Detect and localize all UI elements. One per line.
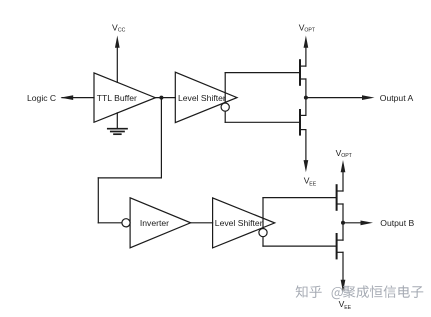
inverter <box>130 198 191 248</box>
wire: right to inverter input bubble <box>98 222 122 224</box>
inverter label <box>140 218 169 228</box>
VEE label A <box>304 175 317 187</box>
svg-text:CC: CC <box>118 27 126 33</box>
TTL buffer label <box>97 93 137 103</box>
level shifter A <box>175 72 237 122</box>
svg-text:OPT: OPT <box>341 153 352 159</box>
node A output junction <box>304 96 308 100</box>
svg-text:EE: EE <box>309 181 316 187</box>
level shifter B <box>213 198 275 248</box>
VEE supply arrow B <box>341 252 346 292</box>
node B output junction <box>341 221 345 225</box>
wire: down to inverter row <box>97 178 99 223</box>
Output A label <box>380 93 414 103</box>
output B arrow <box>343 221 373 226</box>
Vcc label <box>112 22 126 33</box>
wire: level shifter A gate-drive box left vertical <box>224 73 226 123</box>
wire: buffer output to level shifter A <box>155 97 175 99</box>
wire: Q1 source to node A to Q2 drain <box>305 79 307 115</box>
VEE supply arrow A <box>304 130 309 173</box>
input arrow (points left) <box>60 95 94 100</box>
wire: bottom gate wire to Q2 <box>225 121 300 123</box>
transistor Q4 (lower MOSFET, output B) <box>337 234 343 258</box>
wire: inverter to level shifter B <box>191 222 213 224</box>
wire: node A down <box>160 98 162 178</box>
wire: horizontal to left <box>98 177 161 179</box>
VEE label B <box>339 299 352 311</box>
VOPT label A <box>299 22 316 33</box>
svg-text:EE: EE <box>344 305 351 311</box>
inverter input bubble <box>122 219 130 227</box>
svg-text:Inverter: Inverter <box>140 218 169 228</box>
transistor Q3 (upper MOSFET, output B) <box>337 185 343 210</box>
svg-text:Level Shifter: Level Shifter <box>215 218 263 228</box>
VOPT label B <box>336 148 353 159</box>
VOPT supply arrow A <box>304 36 309 67</box>
svg-text:Logic C: Logic C <box>27 93 56 103</box>
svg-text:OPT: OPT <box>304 27 315 33</box>
wire: top gate wire to Q3 <box>263 197 337 199</box>
svg-text:TTL Buffer: TTL Buffer <box>97 93 137 103</box>
transistor Q2 (lower MOSFET, output A) <box>300 110 306 135</box>
inversion bubble on level shifter B <box>259 229 267 237</box>
svg-text:Output B: Output B <box>380 218 414 228</box>
transistor Q1 (upper MOSFET, output A) <box>300 60 306 85</box>
watermark 知乎 @聚成恒信电子 <box>296 285 424 299</box>
wire: Q3 source to node B to Q4 drain <box>342 204 344 240</box>
ground <box>108 113 127 134</box>
inversion bubble on level shifter A <box>221 103 229 111</box>
wire: bottom gate wire to Q4 <box>263 245 337 247</box>
level shifter A label <box>178 93 226 103</box>
wire: level shifter B gate-drive box left vertical <box>262 198 264 247</box>
level shifter B label <box>215 218 263 228</box>
output A arrow <box>306 95 375 100</box>
TTL buffer <box>94 73 155 122</box>
input label "Logic C" <box>27 93 56 103</box>
Vcc supply arrow <box>115 36 120 83</box>
wire: top gate wire to Q1 <box>225 72 300 74</box>
svg-text:Level Shifter: Level Shifter <box>178 93 226 103</box>
svg-text:Output A: Output A <box>380 93 414 103</box>
VOPT supply arrow B <box>341 160 346 191</box>
node A junction (buffer output) <box>159 96 163 100</box>
Output B label <box>380 218 414 228</box>
